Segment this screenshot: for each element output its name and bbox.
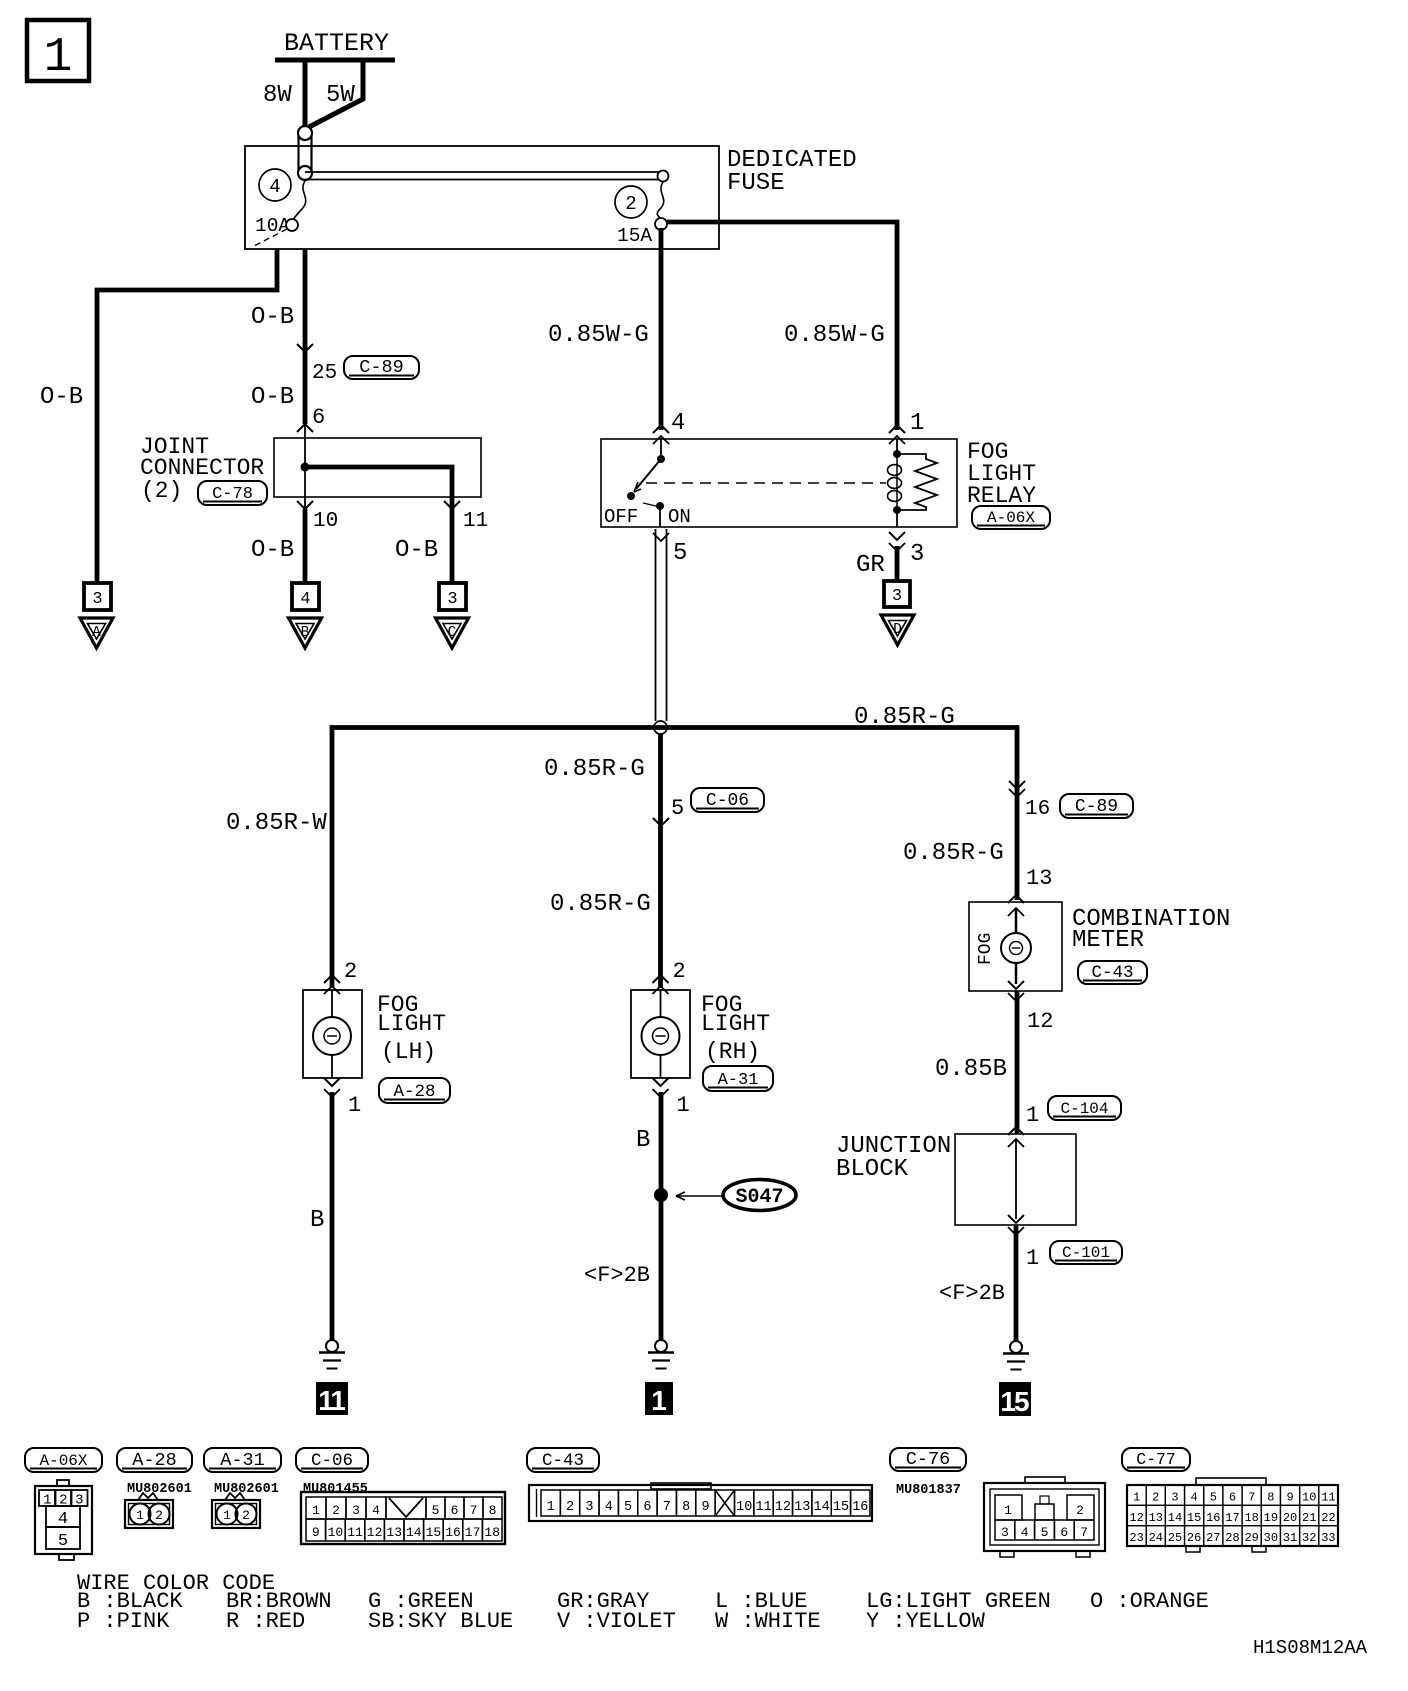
svg-text:3: 3 [1001,1525,1009,1540]
connector A triangle [80,618,113,648]
svg-text:C-06: C-06 [311,1451,353,1471]
relay coil [888,439,902,514]
svg-text:O :ORANGE: O :ORANGE [1090,1589,1209,1614]
label JOINT CONNECTOR (2) [140,434,264,504]
relay switch [604,439,691,528]
wire 0.85W-G fuse2 to relay pin4 [659,228,664,430]
svg-text:C-06: C-06 [706,791,749,811]
connector C-89 pin 16 arrow [1009,781,1025,789]
connector C-43 pinout [529,1483,872,1521]
combination meter box [969,902,1062,991]
svg-text:10: 10 [736,1500,752,1515]
label FOG LIGHT RELAY [967,439,1036,509]
svg-text:1: 1 [223,1508,231,1523]
svg-text:0.85R-G: 0.85R-G [854,704,955,731]
svg-text:6: 6 [643,1500,651,1515]
svg-text:GR: GR [856,552,885,579]
wire 0.85W-G to relay pin1 [667,222,897,430]
arrow into joint connector [297,424,313,432]
svg-text:10: 10 [328,1525,344,1540]
relay resistor [897,454,937,510]
fuse 2 (15A) [615,182,667,247]
svg-text:4: 4 [605,1500,613,1515]
connector label A-31 [703,1066,773,1091]
svg-text:ON: ON [668,506,691,528]
svg-text:1: 1 [136,1508,144,1523]
meter FOG indicator bulb [1001,908,1031,984]
fusible link symbol [298,126,312,180]
svg-text:25: 25 [312,362,337,385]
svg-text:1: 1 [44,31,73,85]
svg-text:3: 3 [585,1500,593,1515]
fog light (RH) bulb [642,990,680,1078]
svg-text:18: 18 [1244,1511,1258,1525]
svg-text:C-77: C-77 [1136,1450,1176,1469]
svg-text:O-B: O-B [251,304,294,331]
splice S047 callout [676,1180,796,1211]
connector label C-76 [890,1448,966,1471]
svg-text:5: 5 [671,796,684,821]
svg-text:15: 15 [426,1525,442,1540]
svg-text:16: 16 [1206,1511,1220,1525]
svg-text:4: 4 [372,1503,380,1518]
wire <F>2B to ground [1014,1225,1019,1341]
svg-text:9: 9 [312,1525,320,1540]
svg-text:2: 2 [242,1508,250,1523]
connector B square 4 [292,583,319,610]
connector label C-78 [198,481,267,505]
svg-text:2: 2 [1076,1503,1084,1518]
svg-text:MU801455: MU801455 [303,1482,368,1497]
wire joint connector branch to 11 [305,467,452,583]
junction block exit arrows [1008,1215,1024,1223]
svg-text:27: 27 [1206,1531,1220,1545]
svg-text:(2): (2) [141,478,182,504]
svg-text:FOG: FOG [976,933,996,965]
svg-text:A-31: A-31 [220,1450,264,1471]
fog light (RH) arrows pin 1 [653,1078,669,1086]
connector C-06 pinout [301,1492,505,1544]
meter pin 12 arrows [1008,981,1024,989]
ground (fog light RH) [648,1340,674,1369]
svg-text:W :WHITE: W :WHITE [715,1609,821,1634]
svg-text:23: 23 [1129,1531,1143,1545]
pin 10 arrow [297,501,313,509]
svg-text:4: 4 [671,410,685,437]
ground number 15 [999,1382,1031,1417]
svg-text:B: B [301,625,310,641]
svg-text:1: 1 [348,1093,361,1118]
svg-text:(RH): (RH) [705,1039,760,1065]
svg-text:5: 5 [58,1532,68,1551]
svg-text:MU802601: MU802601 [214,1482,279,1497]
svg-text:9: 9 [701,1500,709,1515]
svg-text:12: 12 [1027,1009,1053,1034]
svg-text:SB:SKY BLUE: SB:SKY BLUE [368,1609,513,1634]
svg-text:7: 7 [1080,1525,1088,1540]
svg-text:MU801837: MU801837 [896,1483,961,1498]
svg-text:14: 14 [813,1500,829,1515]
ground number 11 [316,1382,348,1416]
connector C triangle [436,618,469,648]
svg-text:BLOCK: BLOCK [836,1156,909,1183]
wire B fog RH to ground [659,1092,664,1340]
connector C-06 pin 5 arrow [653,818,669,826]
svg-text:C-43: C-43 [1092,963,1134,983]
svg-text:0.85B: 0.85B [935,1056,1007,1083]
svg-text:R :RED: R :RED [226,1609,305,1634]
fog light (RH) box [631,990,690,1078]
svg-text:A-06X: A-06X [987,509,1035,527]
svg-text:A-06X: A-06X [40,1452,88,1470]
connector D square 3 [884,581,910,607]
svg-text:13: 13 [1149,1511,1163,1525]
dedicated fuse box [245,146,719,249]
connector label C-06 [296,1448,368,1472]
svg-text:19: 19 [1264,1511,1278,1525]
connector A-31 pinout [212,1493,260,1528]
svg-text:C-104: C-104 [1061,1100,1109,1118]
svg-text:24: 24 [1149,1531,1163,1545]
svg-text:10: 10 [313,510,338,533]
wire double-line from relay pin5 [656,529,667,721]
battery [275,29,395,60]
connector label C-89 [344,356,419,379]
page number box 1 [27,20,89,85]
svg-text:1: 1 [1026,1103,1039,1128]
svg-text:26: 26 [1187,1531,1201,1545]
wire O-B to connector A [97,249,277,583]
svg-text:O-B: O-B [40,384,83,411]
junction block box [955,1134,1076,1225]
svg-text:OFF: OFF [604,506,638,528]
label FOG LIGHT (LH) [377,992,446,1065]
ground number 1 [645,1382,673,1416]
svg-text:15A: 15A [617,225,652,247]
wire 5W branch [309,60,363,127]
svg-text:30: 30 [1264,1531,1278,1545]
connector C-89 pin 25 arrow [297,344,313,352]
svg-text:0.85R-G: 0.85R-G [544,756,645,783]
connector label C-89 [1060,794,1133,818]
svg-text:LIGHT: LIGHT [701,1011,770,1037]
svg-text:6: 6 [451,1503,459,1518]
connector label A-06X [972,506,1050,529]
fog light relay box [601,439,957,527]
svg-text:13: 13 [386,1525,402,1540]
fog light (RH) arrows pin 2 [653,975,669,983]
svg-text:C-101: C-101 [1062,1244,1110,1262]
svg-text:O-B: O-B [395,537,438,564]
fuse 4 (10A) [252,169,306,247]
svg-text:7: 7 [1248,1491,1255,1505]
svg-text:A-31: A-31 [718,1071,759,1090]
connector D triangle [881,615,914,645]
meter pin 13 arrows [1008,895,1024,903]
svg-text:C-76: C-76 [906,1449,950,1470]
svg-text:1: 1 [312,1503,320,1518]
svg-text:5: 5 [673,540,687,567]
svg-text:6: 6 [1229,1491,1236,1505]
svg-text:1: 1 [677,1093,690,1118]
svg-text:18: 18 [484,1525,500,1540]
svg-text:5: 5 [1041,1525,1049,1540]
svg-text:2: 2 [673,959,686,984]
connector label C-43 [527,1448,599,1472]
svg-text:31: 31 [1283,1531,1297,1545]
relay pin 3 [896,510,898,527]
svg-text:P :PINK: P :PINK [77,1609,170,1634]
svg-text:<F>2B: <F>2B [939,1281,1005,1306]
svg-text:0.85R-W: 0.85R-W [226,810,327,837]
svg-text:7: 7 [663,1500,671,1515]
svg-text:0.85W-G: 0.85W-G [548,322,649,349]
svg-text:16: 16 [445,1525,461,1540]
svg-text:0.85W-G: 0.85W-G [784,322,885,349]
svg-text:2: 2 [332,1503,340,1518]
junction circle [654,721,667,734]
svg-text:17: 17 [1225,1511,1239,1525]
svg-text:(LH): (LH) [381,1039,436,1065]
svg-text:33: 33 [1321,1531,1335,1545]
svg-text:3: 3 [92,590,102,609]
connector label A-28 [117,1448,192,1472]
svg-text:<F>2B: <F>2B [584,1263,650,1288]
ground (junction block) [1003,1341,1029,1370]
joint connector box [274,438,481,497]
svg-text:A-28: A-28 [132,1450,176,1471]
connector A square 3 [84,583,111,610]
wire 0.85B meter to junction block [1015,991,1020,1134]
label JUNCTION BLOCK [836,1133,951,1183]
svg-text:FUSE: FUSE [727,170,785,197]
joint connector splice dot [301,463,310,472]
svg-text:12: 12 [775,1500,791,1515]
svg-text:1: 1 [1004,1503,1012,1518]
svg-text:11: 11 [1321,1491,1335,1505]
relay pin 4 arrows [653,425,669,433]
junction block entry arrows [1008,1127,1024,1135]
svg-text:Y :YELLOW: Y :YELLOW [866,1609,986,1634]
svg-text:B: B [636,1127,650,1154]
svg-text:1: 1 [547,1500,555,1515]
svg-text:2: 2 [625,193,636,215]
svg-text:15: 15 [1000,1386,1029,1417]
svg-text:10A: 10A [255,215,290,237]
svg-text:32: 32 [1302,1531,1316,1545]
svg-text:8: 8 [489,1503,497,1518]
svg-text:14: 14 [406,1525,422,1540]
svg-text:21: 21 [1302,1511,1316,1525]
svg-text:10: 10 [1302,1491,1316,1505]
ground (fog light LH) [319,1340,345,1369]
fog light (LH) arrows pin 2 [324,975,340,983]
svg-text:A-28: A-28 [394,1082,436,1102]
junction block internal wire [1015,1139,1017,1219]
svg-text:12: 12 [1129,1511,1143,1525]
fuse bus double line [305,171,669,182]
svg-text:3: 3 [447,590,457,609]
svg-text:C: C [448,625,457,641]
svg-text:C-78: C-78 [212,485,253,504]
pin 11 arrow [444,501,460,509]
svg-text:5: 5 [432,1503,440,1518]
relay pin 1 arrows [889,425,905,433]
connector A-28 pinout [125,1493,173,1528]
wire O-B to connector B [303,509,308,583]
connector C-77 pinout [1127,1478,1338,1552]
svg-text:3: 3 [910,541,924,568]
distribution wire 0.85R-G [332,728,1017,989]
connector label C-43 [1078,961,1147,984]
connector B triangle [289,618,322,648]
svg-text:12: 12 [367,1525,383,1540]
connector A-06X pinout [35,1480,92,1560]
svg-text:17: 17 [465,1525,481,1540]
svg-text:8: 8 [682,1500,690,1515]
svg-text:MU802601: MU802601 [127,1482,192,1497]
svg-text:METER: METER [1072,927,1144,954]
svg-text:11: 11 [318,1385,345,1416]
svg-text:4: 4 [300,590,310,609]
fog light (LH) bulb [313,990,351,1078]
svg-text:13: 13 [794,1500,810,1515]
svg-text:H1S08M12AA: H1S08M12AA [1253,1637,1368,1659]
connector C square 3 [439,583,466,610]
label FOG LIGHT (RH) [701,992,770,1065]
svg-text:C-43: C-43 [542,1451,584,1471]
label DEDICATED FUSE [727,147,857,197]
connector label C-77 [1122,1448,1190,1471]
svg-text:1: 1 [651,1385,666,1416]
svg-text:3: 3 [352,1503,360,1518]
svg-text:20: 20 [1283,1511,1297,1525]
svg-text:S047: S047 [735,1186,783,1209]
svg-text:1: 1 [1026,1246,1039,1271]
connector label A-31 [204,1448,281,1472]
connector label C-06 [691,788,764,812]
svg-text:6: 6 [312,405,325,430]
connector label A-28 [379,1078,450,1103]
relay pin 5 [659,506,661,527]
svg-text:15: 15 [1187,1511,1201,1525]
relay dashed actuation line [646,482,886,484]
svg-text:3: 3 [892,587,902,606]
svg-text:2: 2 [1152,1491,1159,1505]
svg-text:4: 4 [269,176,280,198]
fog light (LH) box [303,990,362,1078]
wire GR to connector D [895,546,900,581]
svg-text:2: 2 [566,1500,574,1515]
svg-text:5: 5 [624,1500,632,1515]
svg-text:B: B [310,1207,324,1234]
svg-text:16: 16 [1025,798,1050,821]
wire color code legend [77,1571,1209,1634]
svg-text:C-89: C-89 [1075,797,1118,817]
wire RH fog branch [658,734,663,988]
svg-text:D: D [893,622,902,638]
svg-text:25: 25 [1168,1531,1182,1545]
svg-text:4: 4 [1021,1525,1029,1540]
svg-text:4: 4 [1191,1491,1198,1505]
svg-text:3: 3 [1171,1491,1178,1505]
svg-text:15: 15 [833,1500,849,1515]
svg-text:LIGHT: LIGHT [377,1011,446,1037]
svg-text:V :VIOLET: V :VIOLET [557,1609,676,1634]
svg-text:1: 1 [910,410,924,437]
svg-text:0.85R-G: 0.85R-G [903,840,1004,867]
splice S047 dot [654,1188,668,1202]
svg-text:11: 11 [347,1525,363,1540]
svg-text:O-B: O-B [251,384,294,411]
connector label C-104 [1048,1096,1121,1120]
svg-text:8W: 8W [263,82,292,109]
connector C-76 pinout [984,1477,1105,1557]
connector label C-101 [1050,1241,1122,1264]
svg-text:11: 11 [755,1500,771,1515]
svg-text:9: 9 [1286,1491,1293,1505]
wire B fog LH to ground [330,1092,335,1340]
svg-text:A: A [92,625,101,641]
fog light (LH) arrows pin 1 [324,1078,340,1086]
label COMBINATION METER [1072,906,1230,954]
svg-text:0.85R-G: 0.85R-G [550,891,651,918]
svg-text:1: 1 [1133,1491,1140,1505]
svg-text:28: 28 [1225,1531,1239,1545]
svg-text:8: 8 [1267,1491,1274,1505]
svg-text:C-89: C-89 [359,357,403,378]
svg-text:BATTERY: BATTERY [284,29,389,58]
svg-text:7: 7 [470,1503,478,1518]
svg-text:2: 2 [155,1508,163,1523]
svg-text:22: 22 [1321,1511,1335,1525]
svg-text:2: 2 [344,959,357,984]
wire battery to fusible link [303,60,308,132]
svg-text:11: 11 [463,510,488,533]
svg-text:O-B: O-B [251,537,294,564]
connector label A-06X [25,1448,102,1472]
svg-text:6: 6 [1060,1525,1068,1540]
svg-text:14: 14 [1168,1511,1182,1525]
svg-text:13: 13 [1026,866,1052,891]
svg-text:29: 29 [1244,1531,1258,1545]
svg-text:5: 5 [1210,1491,1217,1505]
wire joint connector down pin 10 [304,467,306,509]
wire O-B fuse4 to joint connector [303,249,308,424]
svg-text:16: 16 [852,1500,868,1515]
